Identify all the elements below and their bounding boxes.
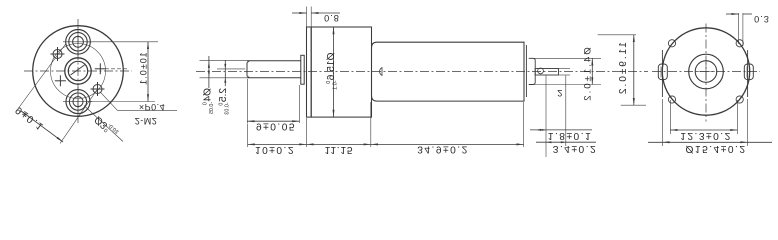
svg-text:12.3±0.2: 12.3±0.2 — [680, 130, 732, 141]
svg-text:34.9±0.2: 34.9±0.2 — [417, 144, 469, 155]
svg-text:Ø4.1±0.2: Ø4.1±0.2 — [583, 47, 594, 102]
svg-text:9±0.05: 9±0.05 — [256, 120, 296, 131]
svg-text:0.8: 0.8 — [324, 13, 340, 23]
svg-text:11.15: 11.15 — [325, 144, 354, 155]
svg-text:10±0.1: 10±0.1 — [138, 52, 148, 85]
svg-text:2-M2: 2-M2 — [135, 116, 158, 126]
svg-text:1.8±0.1: 1.8±0.1 — [548, 130, 592, 141]
svg-text:10±0.2: 10±0.2 — [255, 144, 295, 155]
svg-text:Ø15.4±0.2: Ø15.4±0.2 — [685, 143, 746, 154]
svg-text:2: 2 — [557, 88, 564, 98]
svg-text:3.4±0.2: 3.4±0.2 — [553, 143, 597, 154]
svg-text:0.3: 0.3 — [754, 14, 770, 24]
svg-text:11.9±0.2: 11.9±0.2 — [618, 42, 629, 96]
svg-text:×P0.4: ×P0.4 — [139, 102, 165, 112]
